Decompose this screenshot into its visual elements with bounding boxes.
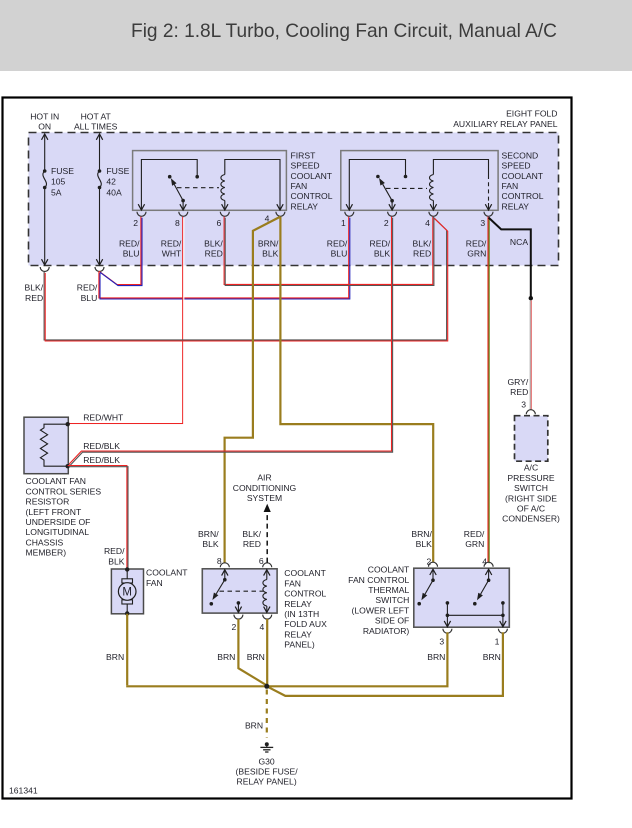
wire RED/BLK relay2 terminal2 to resistor bbox=[68, 217, 392, 466]
svg-text:BLK: BLK bbox=[416, 539, 433, 549]
wire BLK/RED fuse105 to relay2 terminal4 bbox=[44, 217, 447, 340]
svg-text:G30: G30 bbox=[258, 756, 274, 766]
svg-text:RELAY PANEL): RELAY PANEL) bbox=[237, 777, 297, 787]
svg-text:SWITCH: SWITCH bbox=[375, 595, 409, 605]
svg-text:BLU: BLU bbox=[123, 249, 140, 259]
svg-text:GRN: GRN bbox=[467, 249, 486, 259]
svg-text:BRN: BRN bbox=[247, 652, 265, 662]
svg-text:RED/: RED/ bbox=[466, 238, 487, 248]
svg-text:RED/: RED/ bbox=[119, 238, 140, 248]
svg-text:BLK: BLK bbox=[374, 249, 391, 259]
svg-text:2: 2 bbox=[232, 622, 237, 632]
svg-text:BRN/: BRN/ bbox=[411, 529, 432, 539]
svg-text:RED/WHT: RED/WHT bbox=[83, 412, 124, 422]
svg-text:HOT IN: HOT IN bbox=[30, 112, 59, 122]
svg-text:COOLANT: COOLANT bbox=[502, 171, 544, 181]
relay 2 wire labels bbox=[327, 237, 529, 259]
svg-text:2: 2 bbox=[427, 557, 432, 567]
wire BLK/RED dashed to air conditioning system bbox=[266, 513, 268, 563]
thermal switch terminals 2 4 3 1 bbox=[427, 557, 508, 647]
svg-text:OF A/C: OF A/C bbox=[517, 504, 545, 514]
relay 1 wire labels bbox=[119, 238, 279, 258]
svg-text:BLK/: BLK/ bbox=[242, 529, 261, 539]
svg-text:BRN: BRN bbox=[483, 652, 501, 662]
svg-text:COOLANT: COOLANT bbox=[291, 171, 333, 181]
svg-text:4: 4 bbox=[482, 557, 487, 567]
BLK/RED label at fuse105 exit bbox=[25, 283, 44, 303]
junction NCA to GRY/RED bbox=[529, 296, 533, 300]
svg-text:3: 3 bbox=[439, 637, 444, 647]
RED/BLK label lower bbox=[83, 455, 120, 465]
svg-text:BLK/: BLK/ bbox=[25, 283, 44, 293]
svg-text:M: M bbox=[122, 587, 132, 599]
svg-text:FAN: FAN bbox=[502, 181, 519, 191]
svg-text:5A: 5A bbox=[51, 187, 62, 197]
svg-text:RED: RED bbox=[510, 387, 528, 397]
svg-text:RELAY: RELAY bbox=[284, 599, 312, 609]
svg-text:THERMAL: THERMAL bbox=[368, 585, 409, 595]
ground symbol G30 bbox=[236, 742, 299, 787]
svg-text:RED: RED bbox=[243, 539, 261, 549]
svg-text:(IN 13TH: (IN 13TH bbox=[284, 609, 319, 619]
svg-text:40A: 40A bbox=[106, 187, 122, 197]
svg-text:RED/: RED/ bbox=[370, 238, 391, 248]
svg-text:WHT: WHT bbox=[162, 249, 182, 259]
fuse 105 (5A) bbox=[30, 112, 74, 272]
svg-text:RED/: RED/ bbox=[327, 238, 348, 248]
wire BRN junction to thermal switch terminal1 bbox=[267, 632, 503, 696]
BRN labels on ground wires bbox=[106, 652, 124, 662]
svg-text:2: 2 bbox=[133, 218, 138, 228]
svg-text:BRN/: BRN/ bbox=[258, 238, 279, 248]
svg-text:RED/BLK: RED/BLK bbox=[83, 455, 120, 465]
first speed coolant fan control relay bbox=[133, 150, 333, 211]
svg-text:A/C: A/C bbox=[524, 463, 538, 473]
svg-text:6: 6 bbox=[259, 556, 264, 566]
svg-text:RADIATOR): RADIATOR) bbox=[363, 626, 410, 636]
svg-text:(LEFT FRONT: (LEFT FRONT bbox=[26, 507, 82, 517]
svg-text:8: 8 bbox=[217, 556, 222, 566]
wire RED/BLK resistor to coolant fan bbox=[68, 466, 127, 569]
svg-text:(BESIDE FUSE/: (BESIDE FUSE/ bbox=[236, 767, 299, 777]
svg-text:SPEED: SPEED bbox=[502, 161, 531, 171]
svg-text:FOLD AUX: FOLD AUX bbox=[284, 619, 327, 629]
svg-text:3: 3 bbox=[480, 218, 485, 228]
second speed coolant fan control relay bbox=[341, 150, 544, 211]
svg-text:RED: RED bbox=[413, 249, 431, 259]
svg-text:42: 42 bbox=[106, 177, 116, 187]
svg-text:4: 4 bbox=[260, 622, 265, 632]
svg-text:RELAY: RELAY bbox=[502, 201, 530, 211]
svg-text:AUXILIARY RELAY PANEL: AUXILIARY RELAY PANEL bbox=[453, 119, 558, 129]
wire BRN/BLK relay1 terminal4 to thermal switch terminal2 bbox=[280, 217, 433, 563]
svg-text:AIR: AIR bbox=[257, 473, 271, 483]
svg-text:FAN CONTROL: FAN CONTROL bbox=[348, 575, 409, 585]
svg-text:1: 1 bbox=[341, 218, 346, 228]
svg-text:(LOWER LEFT: (LOWER LEFT bbox=[352, 605, 411, 615]
svg-text:ON: ON bbox=[38, 122, 51, 132]
svg-text:EIGHT FOLD: EIGHT FOLD bbox=[506, 109, 557, 119]
svg-text:FUSE: FUSE bbox=[106, 166, 129, 176]
svg-text:COOLANT: COOLANT bbox=[368, 565, 410, 575]
svg-text:FAN: FAN bbox=[284, 578, 301, 588]
wire RED/WHT relay1 terminal8 to resistor bbox=[68, 217, 183, 424]
svg-text:8: 8 bbox=[175, 218, 180, 228]
svg-text:RESISTOR: RESISTOR bbox=[26, 497, 70, 507]
svg-text:105: 105 bbox=[51, 177, 66, 187]
svg-text:BLK: BLK bbox=[202, 539, 219, 549]
svg-text:BLK: BLK bbox=[262, 249, 279, 259]
coolant fan control thermal switch bbox=[348, 565, 509, 636]
svg-text:COOLANT: COOLANT bbox=[146, 568, 188, 578]
svg-text:BRN/: BRN/ bbox=[198, 529, 219, 539]
relay 1 terminals 2 8 6 4 bbox=[133, 212, 285, 228]
wire BRN dashed to ground G30 bbox=[266, 690, 268, 738]
svg-text:RED: RED bbox=[205, 249, 223, 259]
GRY/RED label bbox=[507, 377, 528, 397]
svg-text:CONTROL: CONTROL bbox=[502, 191, 544, 201]
svg-text:SECOND: SECOND bbox=[502, 150, 539, 160]
svg-text:BLK/: BLK/ bbox=[413, 238, 432, 248]
RED/WHT label bbox=[83, 412, 124, 422]
title bar bbox=[0, 0, 632, 71]
air conditioning system node bbox=[233, 473, 297, 504]
svg-text:CONDENSER): CONDENSER) bbox=[502, 514, 560, 524]
svg-text:FAN: FAN bbox=[291, 181, 308, 191]
svg-text:CONTROL: CONTROL bbox=[291, 191, 333, 201]
svg-text:RELAY: RELAY bbox=[291, 201, 319, 211]
svg-text:RED/: RED/ bbox=[77, 283, 98, 293]
svg-text:4: 4 bbox=[425, 218, 430, 228]
wire BRN ground bus to thermal switch terminal3 bbox=[126, 632, 447, 686]
svg-text:BLU: BLU bbox=[331, 249, 348, 259]
svg-text:PRESSURE: PRESSURE bbox=[507, 473, 555, 483]
svg-text:FIRST: FIRST bbox=[291, 150, 317, 160]
AC relay terminals 8 6 2 4 bbox=[217, 556, 272, 632]
fuse 42 (40A) bbox=[74, 112, 130, 272]
svg-text:3: 3 bbox=[521, 400, 526, 410]
svg-text:SYSTEM: SYSTEM bbox=[247, 493, 282, 503]
svg-text:ALL TIMES: ALL TIMES bbox=[74, 122, 118, 132]
svg-text:GRN: GRN bbox=[465, 539, 484, 549]
svg-text:CONTROL: CONTROL bbox=[284, 589, 326, 599]
svg-text:CONDITIONING: CONDITIONING bbox=[233, 483, 297, 493]
svg-text:UNDERSIDE OF: UNDERSIDE OF bbox=[26, 517, 91, 527]
svg-text:BLU: BLU bbox=[81, 293, 98, 303]
eight fold auxiliary relay panel bbox=[29, 109, 559, 266]
wire BLK/RED relay1 terminal6 to relay2 terminal4 bbox=[224, 217, 433, 285]
svg-text:1: 1 bbox=[495, 637, 500, 647]
diagram frame bbox=[3, 98, 572, 799]
svg-text:RED/BLK: RED/BLK bbox=[83, 441, 120, 451]
BRN/BLK label at AC relay bbox=[198, 529, 219, 549]
svg-text:COOLANT: COOLANT bbox=[284, 568, 326, 578]
svg-text:RED/: RED/ bbox=[104, 546, 125, 556]
svg-text:SIDE OF: SIDE OF bbox=[375, 616, 409, 626]
svg-text:2: 2 bbox=[384, 218, 389, 228]
svg-text:RED/: RED/ bbox=[161, 238, 182, 248]
svg-text:Fig 2: 1.8L Turbo, Cooling Fan: Fig 2: 1.8L Turbo, Cooling Fan Circuit, … bbox=[131, 21, 557, 42]
svg-text:161341: 161341 bbox=[9, 786, 38, 796]
svg-text:COOLANT FAN: COOLANT FAN bbox=[26, 476, 87, 486]
svg-text:BRN: BRN bbox=[106, 652, 124, 662]
BLK/RED label at AC relay bbox=[242, 529, 261, 549]
coolant fan motor M bbox=[111, 567, 188, 615]
svg-text:(RIGHT SIDE: (RIGHT SIDE bbox=[505, 493, 557, 503]
BRN/BLK label at thermal switch bbox=[411, 529, 432, 549]
svg-text:CHASSIS: CHASSIS bbox=[26, 537, 64, 547]
svg-text:NCA: NCA bbox=[510, 237, 528, 247]
relay 2 terminals 1 2 4 3 bbox=[341, 212, 493, 228]
svg-text:SWITCH: SWITCH bbox=[514, 483, 548, 493]
svg-text:BRN: BRN bbox=[427, 652, 445, 662]
AC pressure switch bbox=[502, 410, 560, 524]
svg-text:PANEL): PANEL) bbox=[284, 640, 315, 650]
wire RED/BLU fuse42 to relay1 terminal2 bbox=[99, 217, 141, 285]
wire RED/BLU fuse42 to relay2 terminal1 bbox=[99, 217, 349, 298]
wire BRN AC relay terminal2 to junction bbox=[238, 619, 266, 685]
coolant fan control series resistor bbox=[24, 417, 101, 557]
svg-text:GRY/: GRY/ bbox=[507, 377, 528, 387]
RED/BLU label at fuse42 exit bbox=[77, 283, 98, 303]
svg-text:HOT AT: HOT AT bbox=[81, 112, 112, 122]
svg-text:CONTROL SERIES: CONTROL SERIES bbox=[26, 486, 102, 496]
svg-text:BLK/: BLK/ bbox=[204, 238, 223, 248]
svg-text:BRN: BRN bbox=[217, 652, 235, 662]
wire NCA from relay2 terminal3 bbox=[489, 218, 531, 297]
svg-text:RED: RED bbox=[25, 293, 43, 303]
svg-text:RED/: RED/ bbox=[464, 529, 485, 539]
RED/BLK label at fan bbox=[104, 546, 125, 566]
AC pressure switch pin 3 bbox=[521, 400, 526, 410]
svg-text:BLK: BLK bbox=[108, 556, 125, 566]
wire RED/GRN relay2 terminal3 to thermal switch terminal4 bbox=[487, 217, 489, 563]
RED/BLK label upper bbox=[83, 441, 120, 451]
svg-text:FUSE: FUSE bbox=[51, 166, 74, 176]
svg-text:BRN: BRN bbox=[245, 720, 263, 730]
wire BRN AC relay terminal4 to junction bbox=[266, 619, 268, 686]
wire GRY/RED to AC pressure switch bbox=[529, 300, 531, 410]
RED/GRN label at thermal switch bbox=[464, 529, 485, 549]
wire BRN/BLK relay1 terminal4 to AC relay terminal8 bbox=[225, 217, 281, 563]
svg-text:6: 6 bbox=[217, 218, 222, 228]
svg-text:RELAY: RELAY bbox=[284, 629, 312, 639]
svg-text:FAN: FAN bbox=[146, 578, 163, 588]
wire BRN coolant fan to ground bus bbox=[126, 614, 128, 685]
ground bus junction bbox=[264, 684, 269, 689]
svg-text:LONGITUDINAL: LONGITUDINAL bbox=[26, 527, 90, 537]
svg-text:MEMBER): MEMBER) bbox=[26, 548, 67, 558]
coolant fan control relay (13th fold aux panel) bbox=[202, 568, 327, 649]
svg-text:SPEED: SPEED bbox=[291, 161, 320, 171]
